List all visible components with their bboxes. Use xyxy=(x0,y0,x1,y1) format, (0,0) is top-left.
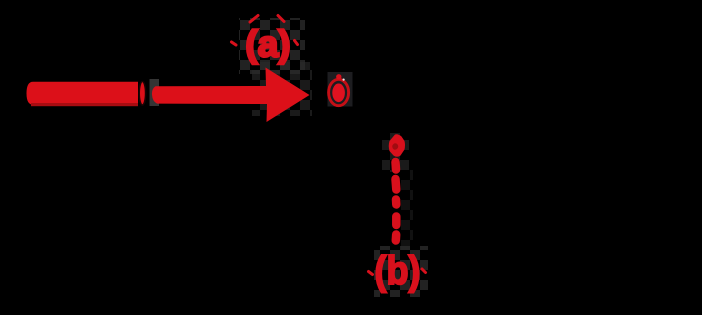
svg-text:(a): (a) xyxy=(245,24,290,65)
svg-text:(b): (b) xyxy=(375,249,421,293)
